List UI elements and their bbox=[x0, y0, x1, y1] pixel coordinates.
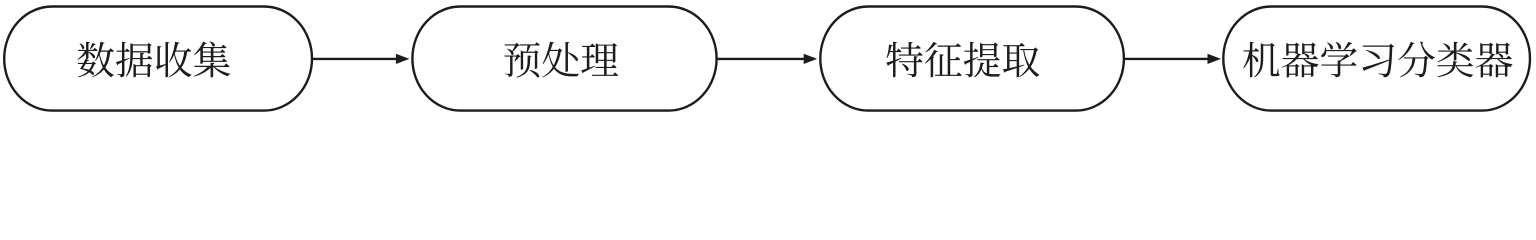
flowchart diagram: data collection -> preprocessing -> feature extraction -> ML classifier bbox=[0, 0, 1536, 118]
terminator box stage4 "机器学习分类器" bbox=[1223, 7, 1530, 111]
label text "机器学习分类器" bbox=[1243, 42, 1512, 78]
label text "预处理" bbox=[504, 42, 618, 78]
label text "数据收集" bbox=[78, 41, 231, 77]
arrow 3: connector wire with arrowhead bbox=[1124, 54, 1221, 64]
arrow 1: connector wire with arrowhead bbox=[312, 54, 409, 64]
arrow 2: connector wire with arrowhead bbox=[717, 54, 818, 64]
terminator box stage3 "特征提取" bbox=[820, 7, 1124, 111]
label text "特征提取" bbox=[886, 42, 1039, 78]
terminator box stage1 "数据收集" bbox=[4, 7, 312, 111]
terminator box stage2 "预处理" bbox=[412, 7, 716, 111]
